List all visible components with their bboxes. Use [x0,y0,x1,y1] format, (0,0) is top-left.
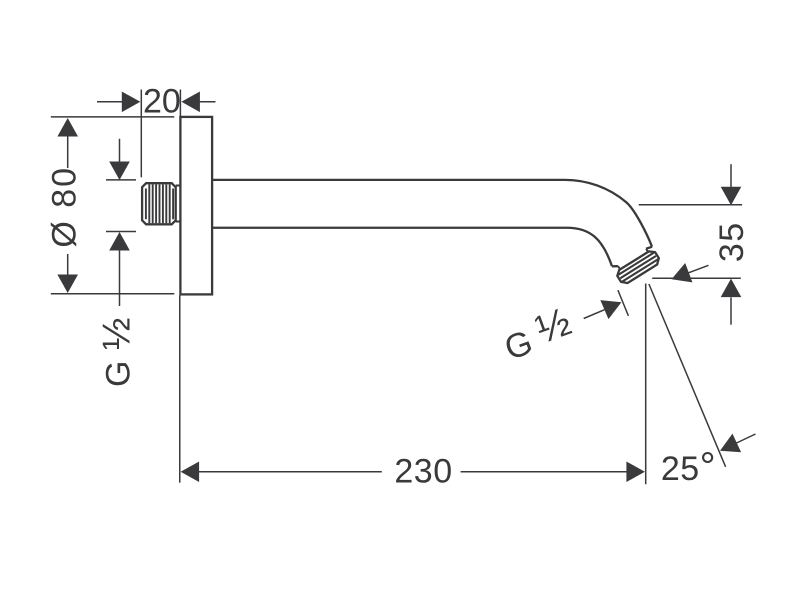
thread hatch lines (wall connector) [146,184,173,223]
svg-text:G ½: G ½ [96,317,139,387]
dim O80: top extension [51,116,175,118]
G1/2 right: thread flank tick [618,290,629,316]
arm end step faces [612,243,652,270]
arrow 230 right-pointing [626,461,645,482]
dim 35: bottom extension [652,277,741,279]
svg-text:35: 35 [713,221,751,262]
dim 20: right leader [199,101,216,103]
tip thread hatch lines [618,253,658,282]
arrow G1/2-left down [109,162,130,181]
25deg leader tail (on ray) [737,434,756,443]
arrow dim20 left-pointing [181,92,200,113]
arrow 35ext leader (points down-left at vertex) [668,263,693,289]
dim 35: upper line [730,164,732,187]
svg-text:G ½: G ½ [496,300,577,368]
dim 20: extension line (thread face) [140,90,142,178]
groove [618,249,648,270]
arrow 35 up [721,279,742,298]
dim 35: top extension [639,204,742,206]
shower arm tube outline [212,180,652,266]
dim G1/2 left: lower line to label [119,250,121,306]
arrow 25deg leader (points down-left at ray) [716,434,741,460]
tip thread block [615,249,661,286]
thread neck (left connector to flange) [176,186,181,222]
svg-text:Ø 80: Ø 80 [45,166,83,248]
G1/2 right: leader tail [584,310,605,319]
dim O80: bottom extension [51,293,175,295]
dim 35: lower line [730,297,732,324]
dim 20: extension line (flange face up) [179,90,181,117]
35ext leader tail [689,265,709,273]
arm tip: threaded outlet (rotated 58deg) [612,243,662,286]
dim G1/2 left: upper line [119,139,121,162]
dim O80: dimension line segments [67,136,69,275]
svg-text:25°: 25° [661,445,716,489]
flange (wall plate) [180,117,212,295]
25deg ray [649,284,726,467]
svg-text:230: 230 [394,452,452,490]
dim G1/2 left: upper tick [106,179,136,181]
arrow G1/2-left up [109,232,130,251]
threaded wall connector body [142,183,176,224]
dim 230: left extension [179,296,181,483]
arrow 230 left-pointing [181,461,200,482]
arrow O80 down [57,275,78,294]
dim 20: left leader [97,101,123,103]
dim 230: line right segment [461,471,627,473]
dim 230: right extension (vertical ray from tip) [645,284,647,485]
dim G1/2 left: lower tick [106,231,136,233]
arrow 35 down [721,187,742,206]
arrow G1/2 right leader (points up-right at tip) [600,293,625,319]
svg-text:20: 20 [143,83,181,121]
dim 230: line left segment [199,471,382,473]
arrow O80 up [57,118,78,137]
arrow dim20 right-pointing [122,92,141,113]
